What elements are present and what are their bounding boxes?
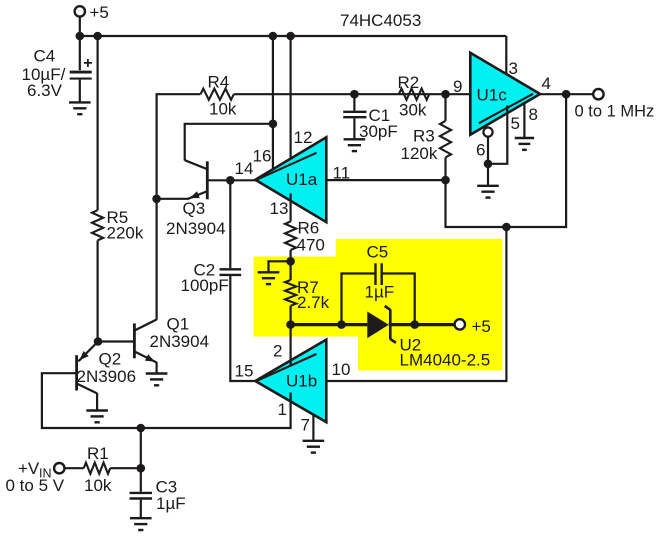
analog switch U1a bbox=[255, 137, 326, 222]
wire node down to R1-C3 node bbox=[140, 428, 142, 468]
svg-text:U1a: U1a bbox=[286, 170, 318, 189]
ground C4 bbox=[69, 101, 91, 103]
wire Q1 collector up to Q3 emitter bbox=[156, 199, 158, 320]
svg-text:+5: +5 bbox=[90, 3, 109, 22]
inverting bubble pin 6 bbox=[483, 128, 492, 137]
wire U1b pin 10 bbox=[326, 227, 506, 381]
wire Q1 emitter to ground bbox=[156, 362, 158, 373]
wire R4 to U1c pin 9 bbox=[234, 93, 470, 95]
svg-text:U1c: U1c bbox=[477, 85, 508, 104]
node rail-R5 bbox=[93, 32, 102, 41]
node pin16-Q3 collector bbox=[269, 120, 278, 129]
node U2-C5 bbox=[410, 320, 419, 329]
svg-text:74HC4053: 74HC4053 bbox=[340, 11, 421, 30]
+5 terminal at U2 bbox=[455, 319, 465, 329]
diode U2 LM4040 bbox=[367, 312, 388, 339]
transistor Q3 emitter lead bbox=[188, 191, 207, 198]
svg-text:1: 1 bbox=[278, 400, 287, 419]
transistor Q1 emitter lead bbox=[135, 352, 157, 363]
U1b switch lever bbox=[258, 354, 317, 381]
wire U1c pin 5 bbox=[488, 106, 507, 164]
svg-text:7: 7 bbox=[301, 416, 310, 435]
analog switch U1b bbox=[255, 340, 326, 423]
svg-text:0 to 5 V: 0 to 5 V bbox=[6, 476, 65, 495]
svg-text:+: + bbox=[83, 55, 92, 72]
wire R3 top bbox=[444, 94, 446, 121]
+5 supply terminal bbox=[75, 6, 85, 16]
ground Q1 emitter bbox=[146, 372, 168, 374]
node rail-C4 bbox=[76, 32, 85, 41]
svg-text:11: 11 bbox=[333, 163, 351, 182]
svg-text:LM4040-2.5: LM4040-2.5 bbox=[400, 350, 491, 369]
ground U1b pin 7 bbox=[303, 440, 325, 442]
node pin5-pin6-ground bbox=[484, 160, 493, 169]
svg-text:2N3904: 2N3904 bbox=[166, 219, 226, 238]
wire Q3 emitter to node bbox=[157, 198, 189, 200]
capacitor C4 wire from rail bbox=[79, 36, 81, 70]
wire U1a pin 11 bbox=[326, 179, 445, 181]
svg-text:220k: 220k bbox=[107, 224, 144, 243]
capacitor C2 bbox=[220, 268, 242, 270]
wire node to ground bbox=[487, 164, 489, 185]
svg-text:470: 470 bbox=[297, 235, 325, 254]
svg-text:Q2: Q2 bbox=[99, 350, 122, 369]
ground C3 bbox=[130, 517, 152, 519]
svg-text:2.7k: 2.7k bbox=[297, 293, 330, 312]
svg-text:10: 10 bbox=[332, 360, 351, 379]
svg-text:120k: 120k bbox=[401, 144, 438, 163]
wire C2 to U1b pin 15 bbox=[230, 276, 256, 381]
node U2 anode-C5 bbox=[337, 320, 346, 329]
wire U1b pin 1 bbox=[42, 373, 291, 428]
wire terminal to R1 bbox=[65, 467, 84, 469]
node R7-U2 bbox=[286, 320, 295, 329]
svg-text:10k: 10k bbox=[84, 476, 112, 495]
wire node to R7 bbox=[290, 261, 292, 280]
capacitor C5 bbox=[374, 263, 376, 285]
svg-text:R2: R2 bbox=[398, 73, 420, 92]
node R2-R3 bbox=[441, 90, 450, 99]
wire C3 to ground bbox=[140, 500, 142, 518]
svg-text:10k: 10k bbox=[209, 100, 237, 119]
capacitor C4 wire to ground bbox=[79, 80, 81, 102]
ground U1c pin 6 bbox=[477, 185, 499, 187]
wire U2 anode bbox=[291, 323, 368, 326]
svg-text:3: 3 bbox=[509, 59, 518, 78]
svg-text:2N3904: 2N3904 bbox=[150, 332, 210, 351]
ground Q2 collector bbox=[86, 409, 108, 411]
svg-text:30pF: 30pF bbox=[359, 122, 398, 141]
wire U1a pin 13 to R6 bbox=[290, 194, 292, 222]
svg-text:14: 14 bbox=[235, 159, 254, 178]
svg-text:1µF: 1µF bbox=[156, 494, 186, 513]
node pin1 wire-R1 bbox=[137, 424, 146, 433]
svg-text:Q3: Q3 bbox=[183, 199, 206, 218]
wire U1b pin 7 bbox=[312, 415, 314, 440]
svg-text:R3: R3 bbox=[413, 127, 435, 146]
resistor R6 bbox=[285, 222, 296, 251]
svg-text:Q1: Q1 bbox=[167, 315, 190, 334]
wire U1a pin 12 bbox=[290, 36, 292, 165]
wire R3 to pin 11 node bbox=[444, 157, 446, 180]
resistor R7 bbox=[285, 280, 296, 306]
svg-text:12: 12 bbox=[294, 128, 313, 147]
wire terminal to +5 rail bbox=[79, 17, 81, 36]
resistor R3 bbox=[440, 121, 451, 157]
svg-text:C4: C4 bbox=[34, 46, 56, 65]
svg-text:R4: R4 bbox=[208, 73, 230, 92]
transistor Q1 collector lead bbox=[135, 320, 157, 331]
node R3-pin11 bbox=[441, 176, 450, 185]
wire U2 cathode to +5 terminal bbox=[389, 323, 455, 326]
wire U1b pin 2 bbox=[290, 325, 292, 367]
node output bbox=[562, 90, 571, 99]
svg-text:4: 4 bbox=[542, 74, 551, 93]
node R1-C3 bbox=[137, 464, 146, 473]
resistor R5 bbox=[92, 210, 103, 240]
svg-text:5: 5 bbox=[511, 114, 520, 133]
U1c switch lever bbox=[479, 94, 533, 124]
wire +5 rail bbox=[79, 35, 507, 37]
transistor Q2 emitter lead bbox=[78, 342, 98, 362]
wire C5 right bbox=[382, 274, 415, 325]
wire C1 top bbox=[353, 94, 355, 111]
svg-text:R1: R1 bbox=[87, 444, 109, 463]
transistor Q2 collector lead bbox=[77, 384, 98, 394]
wire C5 left bbox=[342, 274, 375, 325]
wire node to C3 bbox=[140, 468, 142, 492]
svg-text:6: 6 bbox=[476, 140, 485, 159]
svg-text:+5: +5 bbox=[472, 317, 491, 336]
yellow highlight box around U2 reference circuit bbox=[254, 239, 503, 371]
node rail-U1a pin16 bbox=[269, 32, 278, 41]
transistor Q3 collector lead bbox=[185, 160, 207, 169]
svg-text:2N3906: 2N3906 bbox=[77, 367, 137, 386]
capacitor C3 bbox=[130, 492, 152, 494]
wire rail corner to U1c pin 3 bbox=[505, 36, 507, 82]
output terminal bbox=[593, 89, 603, 99]
svg-text:1µF: 1µF bbox=[365, 282, 395, 301]
wire R6 to node bbox=[290, 250, 292, 261]
node Q1 base-Q2 emitter-R5 bbox=[94, 337, 103, 346]
svg-text:16: 16 bbox=[253, 146, 272, 165]
node loop-U1b pin10 bbox=[502, 223, 511, 232]
svg-text:8: 8 bbox=[529, 105, 538, 124]
node R4 wire-C1 bbox=[350, 90, 359, 99]
resistor R4 bbox=[201, 89, 234, 100]
svg-text:C5: C5 bbox=[367, 243, 389, 262]
wire Q1 base bbox=[98, 340, 134, 342]
wire rail to R5 bbox=[96, 36, 98, 210]
svg-text:2: 2 bbox=[273, 342, 282, 361]
wire R5 to Q1 base node bbox=[96, 240, 98, 341]
wire U1a pin 16 bbox=[272, 36, 274, 169]
wire C1 to ground bbox=[353, 118, 355, 138]
svg-text:100pF: 100pF bbox=[181, 276, 229, 295]
wire Q2 collector to ground bbox=[96, 393, 98, 410]
wire R1 to node bbox=[110, 467, 141, 469]
wire node to ground bbox=[269, 261, 291, 271]
svg-text:13: 13 bbox=[270, 199, 289, 218]
capacitor C4 bbox=[70, 71, 92, 74]
input terminal +VIN bbox=[54, 463, 64, 473]
wire pin 6 bubble to node bbox=[487, 137, 489, 164]
transistor Q1 base bar bbox=[133, 323, 136, 358]
transistor Q3 base bar bbox=[206, 161, 209, 199]
ground C1 bbox=[344, 138, 366, 140]
node rail-U1a pin12 bbox=[286, 32, 295, 41]
wire C2 top bbox=[229, 180, 231, 268]
wire U1c output bbox=[540, 93, 593, 95]
svg-text:0 to 1 MHz: 0 to 1 MHz bbox=[575, 102, 655, 120]
wire R4 left leg bbox=[157, 94, 201, 199]
analog switch U1c bbox=[470, 53, 540, 135]
resistor R2 bbox=[399, 89, 429, 100]
U1a switch lever bbox=[258, 153, 317, 180]
svg-text:15: 15 bbox=[235, 362, 254, 381]
ground U1c pin 8 bbox=[515, 137, 534, 139]
wire feedback loop bbox=[446, 94, 567, 227]
capacitor C1 bbox=[343, 111, 366, 113]
wire to Q3 collector bbox=[185, 124, 273, 161]
resistor R1 bbox=[84, 463, 111, 474]
svg-text:9: 9 bbox=[453, 77, 462, 96]
node base-C2 bbox=[226, 176, 235, 185]
transistor Q2 base bar bbox=[75, 355, 78, 390]
ground R6-R7 node bbox=[258, 271, 280, 273]
wire U1c pin 8 bbox=[523, 103, 525, 137]
wire Q3 base to U1a pin 14 bbox=[207, 179, 256, 181]
svg-text:U1b: U1b bbox=[286, 371, 317, 390]
node Q3 emitter-R4 bbox=[152, 195, 161, 204]
svg-text:30k: 30k bbox=[399, 101, 427, 120]
wire R7 to U2 node bbox=[290, 306, 292, 325]
svg-text:6.3V: 6.3V bbox=[27, 81, 63, 100]
node R6-R7-ground bbox=[286, 257, 295, 266]
